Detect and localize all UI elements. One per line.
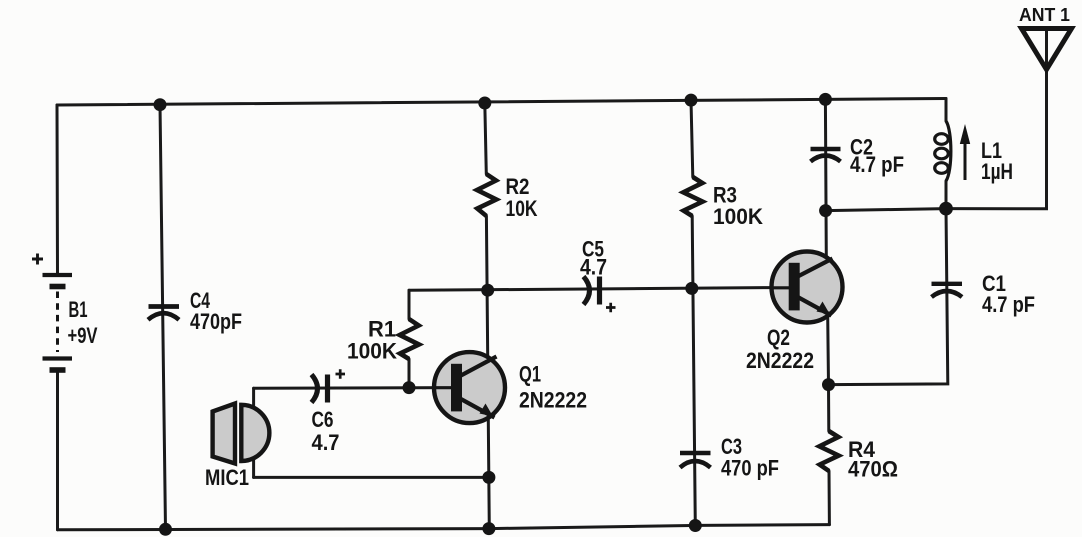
svg-text:4.7: 4.7	[580, 255, 607, 280]
svg-text:Q2: Q2	[767, 325, 790, 350]
svg-text:C6: C6	[312, 407, 334, 432]
svg-text:100K: 100K	[713, 204, 763, 229]
svg-text:100K: 100K	[347, 339, 397, 364]
svg-text:ANT 1: ANT 1	[1019, 5, 1070, 25]
svg-text:470pF: 470pF	[190, 309, 242, 334]
svg-text:4.7 pF: 4.7 pF	[982, 292, 1035, 317]
svg-text:B1: B1	[69, 297, 88, 322]
svg-text:4.7: 4.7	[312, 430, 340, 455]
svg-text:4.7 pF: 4.7 pF	[850, 152, 904, 177]
svg-text:2N2222: 2N2222	[746, 348, 814, 373]
svg-text:1µH: 1µH	[981, 159, 1013, 184]
svg-text:470Ω: 470Ω	[848, 457, 898, 482]
svg-text:470 pF: 470 pF	[721, 456, 779, 481]
svg-text:+9V: +9V	[68, 323, 98, 348]
svg-text:10K: 10K	[506, 196, 538, 221]
svg-text:Q1: Q1	[519, 362, 541, 387]
svg-text:2N2222: 2N2222	[519, 388, 587, 413]
svg-text:MIC1: MIC1	[205, 465, 249, 490]
